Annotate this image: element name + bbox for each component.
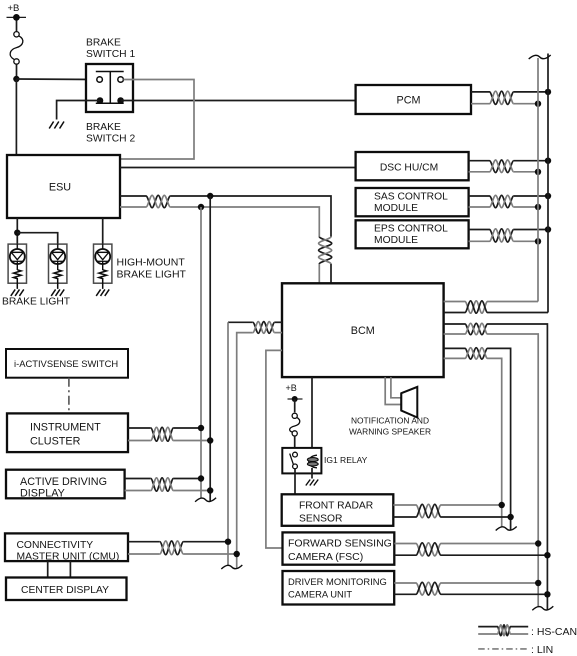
node radar CAN-L: [499, 502, 505, 508]
twisted pair symbol vertical to BCM: [319, 237, 332, 264]
HS-CAN pair display to drop: [125, 478, 151, 480]
svg-text:WARNING SPEAKER: WARNING SPEAKER: [349, 427, 431, 437]
wire junction down to ESU: [15, 79, 17, 155]
svg-text:+B: +B: [286, 383, 297, 393]
EPS control module box: [356, 220, 469, 248]
bus continuation squiggle top: [529, 55, 551, 59]
svg-text:CAMERA UNIT: CAMERA UNIT: [288, 589, 352, 600]
brake switch S1/S2 box: [86, 64, 133, 112]
svg-text:PCM: PCM: [397, 94, 421, 106]
wire brake switch 2 to PCM: [121, 100, 356, 102]
relay coil: [309, 455, 317, 468]
svg-text:CONNECTIVITY: CONNECTIVITY: [17, 540, 94, 551]
brake switch 1 contacts: [97, 77, 103, 83]
i-ACTIVSENSE switch box: [6, 349, 128, 378]
CMU drop termination squiggle: [221, 565, 242, 569]
brake switch actuator bar top: [96, 71, 124, 73]
HS-CAN pair ESU to BCM (black): [120, 195, 146, 197]
HS-CAN pair PCM to bus: [471, 91, 490, 93]
ground brake switch: [49, 122, 53, 129]
ground relay coil: [306, 480, 310, 486]
node radar CAN-H: [507, 514, 513, 520]
node CAN-H branch: [207, 193, 213, 199]
svg-text:BRAKE LIGHT: BRAKE LIGHT: [2, 297, 71, 308]
wire CMU to center display pair: [47, 561, 49, 577]
wire pair into BCM top: [330, 264, 332, 283]
center display box: [6, 578, 127, 601]
brake switch actuator post: [109, 72, 111, 104]
HS-CAN pair BCM to lower bus: [444, 323, 465, 325]
svg-text:DISPLAY: DISPLAY: [20, 488, 65, 500]
HS-CAN pair BCM left to CMU drop: [275, 321, 282, 323]
svg-text:HIGH-MOUNT: HIGH-MOUNT: [117, 256, 186, 268]
HS-CAN pair FSC to bus: [394, 543, 416, 545]
fuse F1 (main): [14, 32, 19, 37]
svg-text:CLUSTER: CLUSTER: [30, 435, 81, 447]
wire ESU to DSC HU/CM: [120, 167, 356, 169]
svg-text:BRAKE: BRAKE: [86, 122, 121, 133]
twisted pair symbol: [146, 195, 170, 207]
speaker notification/warning: [400, 393, 402, 410]
svg-text:NOTIFICATION AND: NOTIFICATION AND: [351, 416, 429, 426]
svg-text:MODULE: MODULE: [374, 203, 418, 214]
wire ESU to high-mount brake light: [102, 218, 104, 244]
power terminal +B relay: [288, 398, 303, 400]
lamp high-mount brake light: [94, 244, 112, 289]
svg-text:CENTER DISPLAY: CENTER DISPLAY: [21, 585, 109, 596]
wire junction to brake switch: [16, 78, 96, 81]
svg-text:FRONT RADAR: FRONT RADAR: [299, 501, 373, 512]
HS-CAN pair cluster to drop: [128, 427, 151, 429]
wire pair corners up to bus: [488, 301, 539, 303]
SAS control module box: [356, 188, 469, 216]
svg-text:SAS CONTROL: SAS CONTROL: [374, 191, 448, 202]
svg-text:ACTIVE DRIVING: ACTIVE DRIVING: [20, 476, 107, 488]
svg-text:SWITCH 1: SWITCH 1: [86, 49, 135, 60]
DSC HU/CM box: [356, 152, 469, 180]
BCM box: [282, 283, 444, 377]
wire CAN-L continue: [170, 207, 319, 237]
svg-text:DSC HU/CM: DSC HU/CM: [380, 163, 438, 174]
wire CAN-H continue: [170, 196, 331, 237]
driver monitoring camera unit box: [283, 571, 395, 605]
svg-text:: LIN: : LIN: [531, 644, 553, 656]
wire relay coil to ground: [311, 468, 313, 479]
ESU box: [7, 155, 120, 218]
svg-text:CAMERA (FSC): CAMERA (FSC): [288, 551, 363, 563]
node brake light branch: [14, 230, 20, 236]
wire branch to second brake light: [17, 233, 57, 244]
brake switch actuator bar bottom: [96, 102, 124, 104]
legend LIN line symbol: [478, 648, 528, 650]
forward sensing camera box: [283, 532, 395, 564]
HS-CAN pair DSC to bus: [469, 160, 490, 162]
svg-text:IG1 RELAY: IG1 RELAY: [324, 455, 368, 465]
bus termination squiggle: [195, 498, 216, 502]
HS-CAN pair CMU to drop: [128, 541, 160, 543]
node A junction +B feed: [13, 76, 19, 82]
svg-text:i-ACTIVSENSE SWITCH: i-ACTIVSENSE SWITCH: [14, 358, 118, 369]
svg-text:INSTRUMENT: INSTRUMENT: [30, 422, 101, 434]
lamp brake light 2: [49, 244, 67, 289]
HS-CAN bus upper verticals: [537, 58, 539, 302]
power symbol +B terminal: [7, 16, 27, 18]
PCM box: [356, 85, 471, 114]
svg-text:SENSOR: SENSOR: [299, 514, 343, 525]
HS-CAN pair SAS to bus: [469, 195, 490, 197]
wire relay to front radar sensor: [294, 469, 296, 495]
svg-text:MODULE: MODULE: [374, 235, 418, 246]
connectivity master unit box: [5, 533, 128, 561]
instrument cluster box: [7, 413, 128, 452]
svg-text:BRAKE LIGHT: BRAKE LIGHT: [117, 268, 187, 280]
HS-CAN pair EPS to bus: [469, 229, 490, 231]
svg-text:BRAKE: BRAKE: [86, 38, 121, 49]
svg-text:ESU: ESU: [49, 182, 71, 194]
wire BCM to forward sensing camera: [266, 350, 283, 548]
wire BCM to speaker +: [391, 377, 401, 398]
LIN wire switch to cluster: [68, 378, 70, 414]
active driving display box: [6, 470, 125, 499]
radar stub termination squiggle: [496, 527, 517, 531]
svg-text:DRIVER MONITORING: DRIVER MONITORING: [288, 576, 387, 587]
node PCM CAN-H on bus: [545, 89, 551, 95]
fuse relay feed: [294, 399, 296, 412]
brake switch 2 contacts: [97, 97, 104, 104]
wire BCM to IG1 relay coil: [311, 377, 313, 455]
HS-CAN pair BCM to upper bus: [444, 301, 465, 303]
node PCM CAN-L on bus: [535, 101, 541, 107]
relay switch contacts: [293, 452, 298, 457]
svg-text:+B: +B: [8, 3, 20, 14]
wire CAN drop to cluster (black): [209, 196, 211, 502]
svg-text:SWITCH 2: SWITCH 2: [86, 134, 135, 145]
svg-text:FORWARD SENSING: FORWARD SENSING: [288, 538, 392, 550]
lamp brake light 1: [8, 244, 26, 289]
svg-text:MASTER UNIT (CMU): MASTER UNIT (CMU): [17, 552, 120, 563]
node CAN-L branch: [198, 204, 204, 210]
wire +B supply vertical to junction: [16, 19, 18, 32]
HS-CAN pair BCM to front radar bus: [444, 347, 465, 349]
wire BCM to speaker -: [385, 377, 400, 404]
svg-text:: HS-CAN: : HS-CAN: [531, 626, 577, 638]
HS-CAN pair driver camera to bus: [394, 582, 416, 584]
wire ESU to brake lights: [16, 218, 18, 244]
front radar sensor box: [282, 494, 394, 526]
svg-text:EPS CONTROL: EPS CONTROL: [374, 224, 448, 235]
bus termination squiggle bottom: [532, 606, 553, 610]
HS-CAN pair radar to stub: [393, 504, 416, 506]
svg-text:BCM: BCM: [351, 325, 375, 337]
legend HS-CAN twisted pair symbol: [478, 626, 497, 628]
wire brake switch 2 to ground: [57, 101, 100, 120]
wire CAN drop to cluster (gray): [200, 207, 202, 498]
relay IG1 box: [282, 448, 321, 474]
wire brake switch 1 to ESU: [120, 80, 194, 160]
